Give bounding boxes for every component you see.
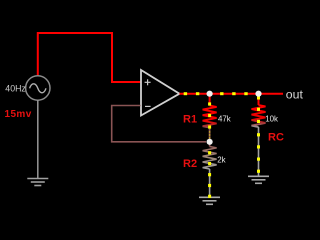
svg-text:40Hz: 40Hz bbox=[5, 84, 26, 94]
label RC bbox=[268, 131, 284, 143]
feedback wire minus input to R1/R2 junction bbox=[112, 106, 206, 142]
value label 40Hz bbox=[5, 84, 26, 94]
value 10k bbox=[265, 114, 278, 123]
svg-text:10k: 10k bbox=[265, 114, 278, 123]
current dots on output wire bbox=[184, 92, 248, 95]
svg-text:15mv: 15mv bbox=[5, 109, 32, 120]
node: output / RC top bbox=[255, 91, 261, 97]
svg-text:2k: 2k bbox=[217, 155, 225, 164]
svg-text:R1: R1 bbox=[183, 114, 197, 126]
label R2 bbox=[183, 158, 197, 170]
svg-text:R2: R2 bbox=[183, 158, 197, 170]
node: op-amp output / R1 top bbox=[207, 91, 213, 97]
ground (R2) bbox=[199, 197, 220, 204]
output wire bbox=[180, 93, 284, 95]
resistor R1 47k (output node to junction) bbox=[203, 94, 217, 142]
resistor R2 2k (junction to ground) bbox=[203, 142, 217, 197]
label out bbox=[286, 87, 304, 101]
label R1 bbox=[183, 114, 197, 126]
svg-text:RC: RC bbox=[268, 131, 284, 143]
current dots on R1 branch bbox=[208, 102, 211, 138]
text label 15mv bbox=[5, 109, 32, 120]
resistor RC 10k (output node 2 to ground) bbox=[252, 94, 266, 176]
value 47k bbox=[218, 115, 231, 124]
wire source top to op-amp plus input bbox=[38, 33, 141, 82]
node: R1/R2 junction bbox=[207, 139, 213, 145]
ground (source) bbox=[27, 179, 48, 186]
svg-text:out: out bbox=[286, 87, 304, 101]
wire source bottom to ground bbox=[37, 100, 39, 178]
current dots on R2 branch bbox=[208, 151, 211, 198]
op-amp U1 bbox=[141, 70, 180, 116]
value 2k bbox=[217, 155, 225, 164]
svg-text:47k: 47k bbox=[218, 115, 231, 124]
current dots on RC branch bbox=[257, 96, 260, 173]
voltage source V1 (AC) bbox=[26, 76, 50, 100]
ground (RC) bbox=[248, 176, 269, 183]
